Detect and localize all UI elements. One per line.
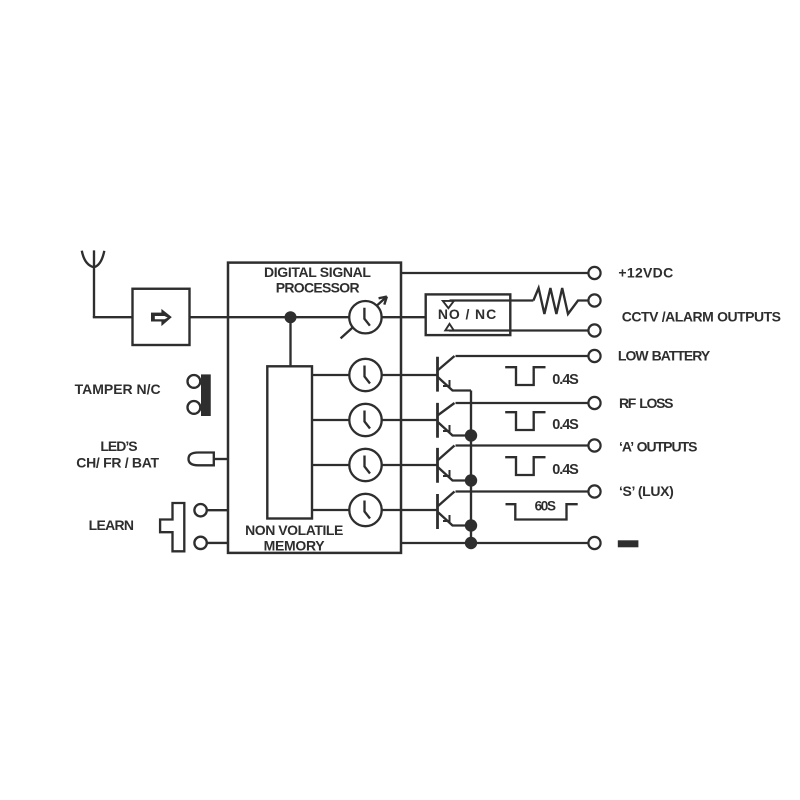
svg-text:NON VOLATILE: NON VOLATILE (245, 522, 343, 538)
svg-text:CH/ FR / BAT: CH/ FR / BAT (76, 455, 159, 471)
svg-text:CCTV /ALARM OUTPUTS: CCTV /ALARM OUTPUTS (622, 309, 781, 325)
svg-text:0.4S: 0.4S (552, 372, 579, 388)
svg-text:0.4S: 0.4S (552, 462, 579, 478)
svg-text:+12VDC: +12VDC (618, 264, 673, 280)
svg-text:0.4S: 0.4S (552, 417, 579, 433)
svg-text:LOW BATTERY: LOW BATTERY (618, 348, 711, 364)
svg-text:‘A’ OUTPUTS: ‘A’ OUTPUTS (619, 439, 697, 455)
svg-text:DIGITAL SIGNAL: DIGITAL SIGNAL (264, 264, 371, 280)
svg-text:PROCESSOR: PROCESSOR (276, 280, 360, 296)
svg-text:‘S’ (LUX): ‘S’ (LUX) (619, 483, 673, 499)
svg-text:60S: 60S (535, 499, 556, 514)
svg-text:TAMPER N/C: TAMPER N/C (75, 381, 161, 397)
svg-text:MEMORY: MEMORY (264, 538, 326, 554)
svg-text:LED’S: LED’S (100, 438, 137, 454)
svg-text:NO / NC: NO / NC (438, 306, 497, 322)
svg-text:LEARN: LEARN (89, 517, 134, 533)
svg-text:RF LOSS: RF LOSS (619, 395, 673, 411)
